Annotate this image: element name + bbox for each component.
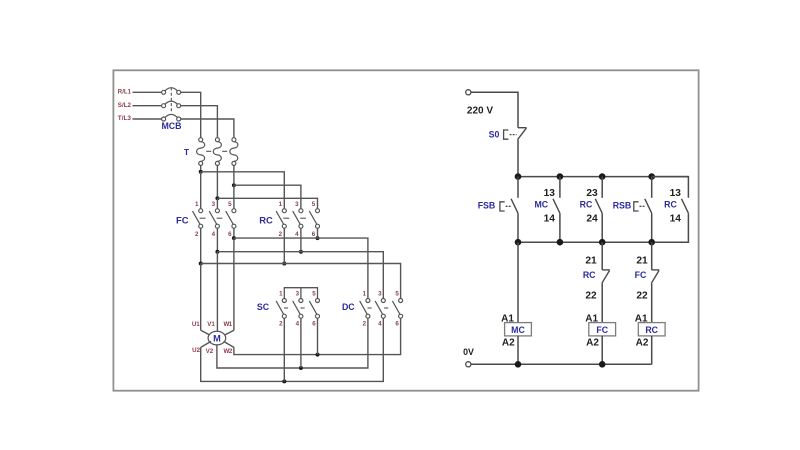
svg-text:6: 6 [312, 320, 316, 327]
svg-text:RC: RC [580, 200, 593, 210]
auxiliary contact RC 13-14 (NO) [652, 177, 688, 243]
contactor DC pole 1 terminals 1-2 [360, 291, 370, 328]
svg-text:5: 5 [395, 291, 399, 298]
svg-text:U1: U1 [192, 321, 200, 328]
svg-text:R/L1: R/L1 [118, 89, 132, 96]
contactor RC pole 2 terminals 3-4 [293, 201, 303, 238]
contactor DC pole 3 terminals 5-6 [392, 291, 402, 328]
pushbutton FSB (NO) [478, 177, 518, 243]
overload relay T heater element 3 [230, 138, 238, 183]
svg-text:5: 5 [312, 291, 316, 298]
svg-text:T/L3: T/L3 [118, 115, 132, 122]
svg-text:RC: RC [583, 270, 596, 280]
node S/L2 phase label [118, 102, 132, 109]
svg-text:FC: FC [176, 215, 189, 226]
svg-text:4: 4 [378, 320, 382, 327]
pushbutton S0 (NC) [489, 128, 527, 140]
label DC [342, 302, 355, 312]
svg-text:14: 14 [544, 214, 556, 225]
svg-text:RC: RC [664, 200, 677, 210]
svg-text:W1: W1 [223, 321, 232, 328]
svg-text:RSB: RSB [613, 200, 632, 210]
wire L1 feed to RC pole 1, junction at T1 output [199, 170, 285, 209]
svg-text:S/L2: S/L2 [118, 102, 132, 109]
svg-text:4: 4 [295, 231, 299, 238]
svg-text:14: 14 [670, 214, 682, 225]
svg-text:1: 1 [279, 291, 283, 298]
terminal 0V [463, 347, 474, 367]
wire motor W2 / SC-6 to DC-6 [224, 318, 401, 356]
svg-text:4: 4 [296, 320, 300, 327]
svg-text:2: 2 [279, 320, 283, 327]
label SC [257, 302, 270, 312]
svg-text:A2: A2 [502, 338, 515, 349]
label RC (power) [259, 215, 273, 226]
svg-text:5: 5 [228, 201, 232, 208]
wire S/L2 to MCB [133, 105, 162, 107]
wire motor U2 / SC-2 to DC-4 [201, 318, 384, 383]
svg-text:M: M [213, 334, 221, 344]
svg-text:1: 1 [363, 291, 367, 298]
svg-text:2: 2 [363, 320, 367, 327]
svg-text:V1: V1 [207, 321, 215, 328]
svg-text:FC: FC [635, 270, 647, 280]
contactor SC pole 1 terminals 1-2 [276, 291, 286, 328]
svg-text:A2: A2 [636, 338, 649, 349]
wire T/L3 to MCB [133, 118, 162, 120]
wire FC-2 junction to motor U1 [201, 264, 211, 336]
svg-text:13: 13 [670, 188, 682, 199]
label V2 [206, 348, 214, 355]
svg-text:T: T [184, 147, 190, 157]
second rail with junction nodes [515, 239, 655, 246]
svg-text:FC: FC [596, 325, 608, 335]
svg-text:RC: RC [645, 325, 658, 335]
svg-text:S0: S0 [489, 130, 500, 140]
bottom rail 0V with junction nodes [471, 361, 652, 368]
contactor SC mechanical link (dashed) [284, 307, 305, 309]
top rail with junction nodes [515, 173, 689, 180]
svg-text:23: 23 [586, 188, 598, 199]
wire MCB pole 1 to overload T pole 1 [181, 92, 201, 137]
svg-text:6: 6 [312, 231, 316, 238]
svg-text:22: 22 [636, 291, 648, 302]
label T [184, 147, 190, 157]
label W2 [224, 348, 233, 355]
contactor RC mechanical link (dashed) [283, 217, 306, 219]
svg-text:21: 21 [636, 255, 648, 266]
contactor FC mechanical link (dashed) [200, 217, 223, 219]
overload relay T trip linkage (dashed) [206, 150, 228, 152]
svg-text:1: 1 [279, 201, 283, 208]
svg-text:0V: 0V [463, 347, 474, 357]
svg-text:24: 24 [586, 214, 598, 225]
svg-text:3: 3 [295, 201, 299, 208]
wire FC-4 junction to motor V1 [216, 252, 218, 333]
svg-text:21: 21 [585, 255, 597, 266]
wire L3 feed to RC pole 2, junction at T3 output [232, 183, 301, 209]
svg-text:2: 2 [195, 231, 199, 238]
contactor RC pole 3 terminals 5-6 [309, 201, 319, 238]
node T/L3 phase label [118, 115, 132, 122]
contactor DC pole 2 terminals 3-4 [375, 291, 385, 328]
contactor SC pole 3 terminals 5-6 [309, 291, 319, 328]
svg-text:3: 3 [212, 201, 216, 208]
wire FC-6 junction to motor W1 [224, 238, 234, 336]
wire MCB pole 3 to overload T pole 3 [181, 119, 234, 138]
interlock contact FC 21-22 (NC) [635, 242, 660, 322]
wire FC-2 / RC-2 to DC pole 3 [199, 228, 401, 298]
label W1 [223, 321, 232, 328]
terminal 220V [466, 90, 494, 117]
wire MCB pole 2 to overload T pole 2 [181, 106, 218, 138]
wire motor V2 / SC-4 to DC-2 [217, 318, 368, 370]
contactor SC pole 2 terminals 3-4 [293, 291, 303, 328]
label V1 [207, 321, 215, 328]
svg-text:FSB: FSB [478, 200, 496, 210]
svg-text:DC: DC [342, 302, 355, 312]
svg-text:A1: A1 [501, 313, 514, 324]
label U1 [192, 321, 200, 328]
svg-text:220 V: 220 V [467, 105, 493, 116]
label FC [176, 215, 189, 226]
circuit breaker MCB pole 3 [162, 114, 181, 121]
svg-text:SC: SC [257, 302, 270, 312]
wire 220V to S0 [471, 92, 518, 127]
node R/L1 phase label [118, 89, 132, 96]
wire FC-4 / RC-4 to DC pole 2 [215, 228, 383, 298]
svg-text:MC: MC [534, 200, 548, 210]
svg-text:A2: A2 [586, 338, 599, 349]
svg-text:W2: W2 [224, 348, 233, 355]
coil RC with terminals A1-A2 [635, 313, 665, 364]
contactor RC pole 1 terminals 1-2 [276, 201, 286, 238]
svg-text:A1: A1 [635, 313, 648, 324]
contactor FC pole 3 terminals 5-6 [226, 201, 236, 238]
svg-text:2: 2 [279, 231, 283, 238]
overload relay T heater element 1 [197, 138, 205, 170]
contactor DC mechanical link (dashed) [368, 307, 389, 309]
pushbutton RSB (NO) [613, 177, 652, 243]
svg-text:1: 1 [195, 201, 199, 208]
svg-text:6: 6 [228, 231, 232, 238]
circuit breaker MCB pole 1 [162, 88, 181, 95]
coil FC with terminals A1-A2 [585, 313, 615, 364]
svg-text:U2: U2 [192, 347, 200, 354]
contactor SC star-point bar [284, 288, 317, 299]
overload relay T heater element 2 [213, 138, 221, 197]
svg-text:A1: A1 [585, 313, 598, 324]
svg-text:3: 3 [378, 291, 382, 298]
label U2 [192, 347, 200, 354]
auxiliary contact RC 23-24 (NO) [580, 177, 603, 243]
auxiliary contact MC 13-14 (NO) [534, 177, 559, 243]
interlock contact RC 21-22 (NC) [583, 242, 610, 322]
label MCB [161, 121, 181, 131]
coil MC with terminals A1-A2 [501, 313, 531, 364]
contactor FC pole 2 terminals 3-4 [209, 201, 219, 238]
svg-text:MCB: MCB [161, 121, 181, 131]
svg-text:3: 3 [296, 291, 300, 298]
svg-text:RC: RC [259, 215, 273, 226]
wire L2 feed to RC pole 3, junction at T2 output [215, 196, 317, 208]
wire R/L1 to MCB [133, 91, 162, 93]
svg-text:V2: V2 [206, 348, 214, 355]
svg-text:22: 22 [585, 291, 597, 302]
svg-text:13: 13 [544, 188, 556, 199]
circuit breaker MCB mechanical link (dashed) [170, 88, 172, 113]
motor M [208, 331, 226, 345]
svg-text:MC: MC [511, 325, 525, 335]
wire S0 to top rail [517, 140, 519, 177]
circuit breaker MCB pole 2 [162, 101, 181, 108]
wire FC-6 / RC-6 to DC pole 1 [232, 228, 368, 298]
wire second rail to coil MC [517, 242, 519, 322]
contactor FC pole 1 terminals 1-2 [193, 201, 203, 238]
svg-text:4: 4 [212, 231, 216, 238]
svg-text:5: 5 [312, 201, 316, 208]
svg-text:6: 6 [395, 320, 399, 327]
